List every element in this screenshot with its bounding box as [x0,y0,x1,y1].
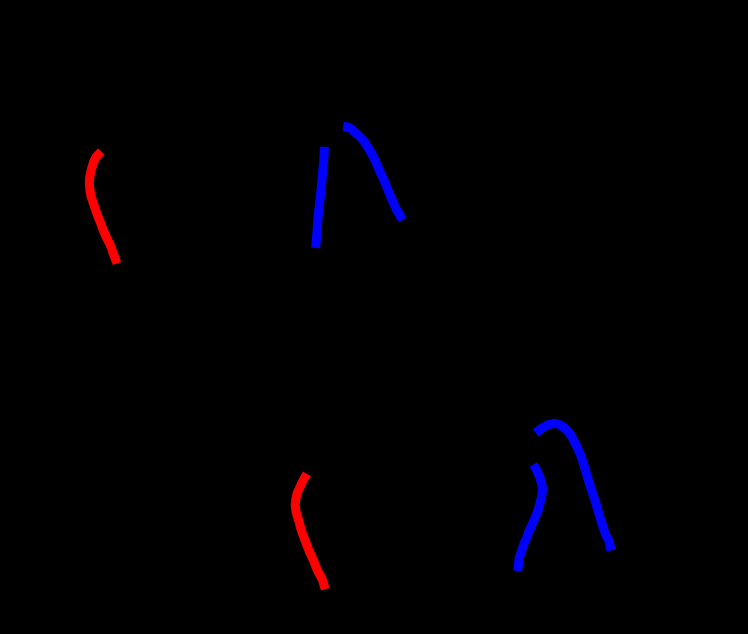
red stroke S3 (bottom-center, open-paren curve) [295,474,325,589]
blue stroke S4b (bottom-right, left hook) [518,465,543,572]
blue stroke S4a (bottom-right, big arch) [536,423,611,550]
blue stroke S2a (top-center, left leg of lambda) [316,147,325,248]
red stroke S1 (top-left, open-paren curve) [89,152,117,264]
blue stroke S2b (top-center, right arch of lambda) [343,127,402,221]
